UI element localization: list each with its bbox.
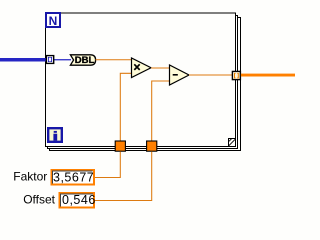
thick orange output array wire [241, 74, 295, 77]
svg-text:N: N [49, 14, 58, 28]
thin blue wire tunnel to DBL [53, 59, 71, 61]
right output tunnel [] [232, 71, 240, 79]
bottom tunnel 2 (Offset) [147, 141, 157, 151]
wire multiply to subtract [151, 67, 170, 69]
svg-text:3,5677: 3,5677 [53, 170, 94, 184]
wire Offset box to tunnel 2 [95, 152, 152, 201]
for-loop frame main border [46, 13, 236, 147]
multiply node [132, 58, 152, 78]
wire Faktor box to tunnel 1 [94, 152, 120, 178]
bottom tunnel 1 (Faktor) [115, 141, 125, 151]
blue thick input array wire [0, 58, 46, 62]
N count terminal box [46, 13, 60, 28]
subtract node [170, 65, 190, 85]
i iteration terminal box [48, 128, 62, 142]
fold corner (stacked-sheet fold, bottom-right inside loop) [229, 139, 236, 147]
for-loop frame 2 (middle stacked sheet) [48, 16, 238, 149]
svg-text:Offset: Offset [23, 193, 55, 207]
wire offset tunnel up to subtract lower input [152, 81, 170, 141]
for-loop frame 3 (outermost stacked sheet) [50, 18, 241, 151]
DBL conversion node [70, 55, 95, 66]
wire faktor tunnel up to multiply lower input [120, 73, 131, 141]
svg-text:DBL: DBL [75, 55, 95, 66]
svg-text:0,546: 0,546 [62, 193, 96, 207]
wire DBL to multiply [96, 59, 132, 61]
left auto-index tunnel [] [46, 56, 53, 64]
svg-text:Faktor: Faktor [13, 169, 47, 183]
Offset numeric constant box [60, 193, 96, 208]
wire subtract to output tunnel [189, 74, 232, 76]
Faktor numeric constant box [52, 170, 95, 185]
